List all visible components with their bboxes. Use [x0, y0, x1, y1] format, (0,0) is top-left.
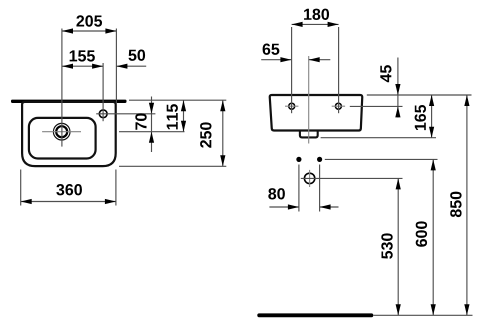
extension basin top to 45/850 dims	[367, 94, 472, 96]
dimension 70 stem	[151, 97, 153, 153]
dimension 205 arrow right	[105, 28, 116, 33]
dimension 80 label	[268, 188, 285, 199]
wall line (thick bar, plan view)	[11, 100, 127, 103]
dimension 530 stem	[397, 178, 399, 315]
dimension 360 line	[21, 201, 116, 203]
wall anchor dot right	[317, 157, 322, 162]
dimension 50 arrow	[116, 64, 127, 69]
floor reference thin line	[373, 314, 472, 316]
dimension 80 left tail	[269, 206, 299, 208]
drain horizontal centerline	[42, 131, 81, 133]
dimension 45 arrow top	[395, 84, 400, 95]
extension line wall level to 115/250 dims	[129, 99, 226, 101]
dimension 850 label	[450, 192, 461, 218]
extension line 80 right	[319, 165, 321, 212]
extension line drain level to 70/115 dims	[119, 131, 185, 133]
tap hole circle	[99, 110, 107, 118]
dimension 65 right tail	[309, 59, 331, 61]
dimension 70 label	[135, 113, 146, 129]
dimension 65 arrow at centerline	[309, 57, 320, 62]
dimension 850 arrow top	[464, 95, 469, 106]
dimension 180 label	[304, 9, 329, 20]
drain hole circle (front view)	[304, 173, 314, 183]
dimension 155 label	[70, 50, 95, 61]
extension trap bottom to 165 dim	[321, 137, 436, 139]
extension line right hole vertical	[338, 27, 340, 113]
extension line 360 left	[20, 170, 22, 206]
dimension 205 line	[62, 30, 116, 32]
dimension 80 arrow right	[320, 204, 331, 209]
dimension 70 arrow top	[149, 103, 154, 114]
dimension 115 stem	[183, 100, 185, 132]
dimension 80 right tail	[320, 206, 339, 208]
drain inner circle	[56, 126, 67, 137]
dimension 600 arrow top	[431, 159, 436, 170]
dimension 360 arrow right	[105, 199, 116, 204]
left mounting hole horizontal tick	[285, 105, 298, 107]
dimension 250 label	[200, 122, 211, 147]
dimension 45 stem	[397, 58, 399, 118]
dimension 360 arrow left	[21, 199, 32, 204]
dimension 250 arrow bottom	[220, 155, 225, 166]
dimension 530 label	[381, 233, 392, 259]
dimension 80 arrow left	[288, 204, 299, 209]
dimension 165 arrow bottom	[429, 127, 434, 138]
drain outer circle	[53, 123, 70, 140]
tap hole horizontal centerline extending to 70 dim	[96, 113, 155, 115]
dimension 180 line	[292, 23, 339, 25]
inner bowl outline (plan)	[29, 118, 96, 159]
dimension 850 arrow bottom	[464, 304, 469, 315]
dimension 850 stem	[466, 95, 468, 315]
dimension 600 stem	[432, 159, 434, 315]
siphon trap outline	[300, 131, 318, 137]
front view vertical centerline	[308, 56, 310, 144]
extension line basin front level to 250 dim	[119, 165, 226, 167]
basin outer outline (plan)	[22, 102, 116, 166]
dimension 600 label	[416, 221, 427, 246]
dimension 205 arrow left	[62, 28, 73, 33]
dimension 530 arrow bottom	[396, 304, 401, 315]
dimension 180 arrow right	[328, 22, 339, 27]
extension line 80 left	[298, 165, 300, 212]
left mounting hole	[289, 103, 295, 109]
dimension 250 arrow top	[220, 100, 225, 111]
dimension 530 arrow top	[396, 178, 401, 189]
extension line 360 right	[115, 170, 117, 206]
extension line left hole vertical	[291, 27, 293, 113]
dimension 115 arrow top	[181, 100, 186, 111]
tap hole vertical centerline / 155-50 extension	[102, 63, 104, 121]
extension line basin right edge for 205/50	[115, 29, 117, 104]
floor line (thick bar)	[257, 313, 373, 317]
right mounting hole horizontal tick	[332, 105, 345, 107]
dimension 360 label	[56, 184, 82, 195]
dimension 165 stem	[431, 95, 433, 138]
dimension 115 label	[167, 104, 178, 129]
dimension 70 arrow bottom	[149, 132, 154, 143]
dimension 50 label	[129, 50, 146, 61]
dimension 165 arrow top	[429, 95, 434, 106]
extension hole centerline to 45 dim	[350, 105, 403, 107]
dimension 65 left tail	[261, 59, 291, 61]
right mounting hole	[335, 103, 341, 109]
basin front outline	[270, 95, 363, 131]
dimension 45 label	[380, 65, 391, 82]
dimension 205 label	[76, 15, 102, 26]
drain hole vertical tick	[309, 170, 311, 187]
dimension 155 line	[62, 65, 103, 67]
drain hole horizontal tick and 530 extension	[301, 177, 403, 179]
dimension 165 label	[415, 105, 426, 130]
dimension 250 stem	[222, 100, 224, 166]
dimension 65 label	[263, 44, 280, 55]
drain vertical centerline and 205/155 extension	[61, 29, 63, 147]
dimension 115 arrow bottom	[181, 121, 186, 132]
dimension 180 arrow left	[292, 22, 303, 27]
dimension 65 arrow at hole	[280, 57, 291, 62]
dimension 45 arrow bottom	[395, 106, 400, 117]
extension dots level to 600 dim	[325, 158, 438, 160]
wall anchor dot left	[296, 157, 301, 162]
dimension 600 arrow bottom	[431, 304, 436, 315]
dimension 155 arrow right	[92, 64, 103, 69]
dimension 155 arrow left	[62, 64, 73, 69]
dimension 50 tail line	[116, 65, 146, 67]
